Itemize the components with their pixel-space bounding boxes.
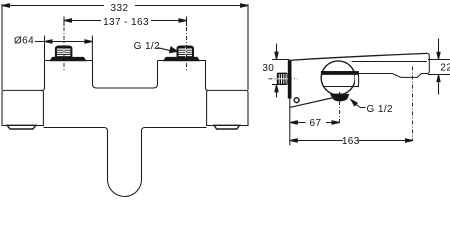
svg-text:137 - 163: 137 - 163 [103,17,149,28]
svg-text:332: 332 [111,3,129,14]
svg-text:67: 67 [310,118,322,129]
svg-text:163: 163 [342,136,360,147]
svg-text:22: 22 [440,63,450,74]
svg-text:Ø64: Ø64 [14,36,34,47]
svg-text:30: 30 [262,63,274,74]
svg-text:G 1/2: G 1/2 [367,104,393,115]
svg-text:G 1/2: G 1/2 [134,41,160,52]
